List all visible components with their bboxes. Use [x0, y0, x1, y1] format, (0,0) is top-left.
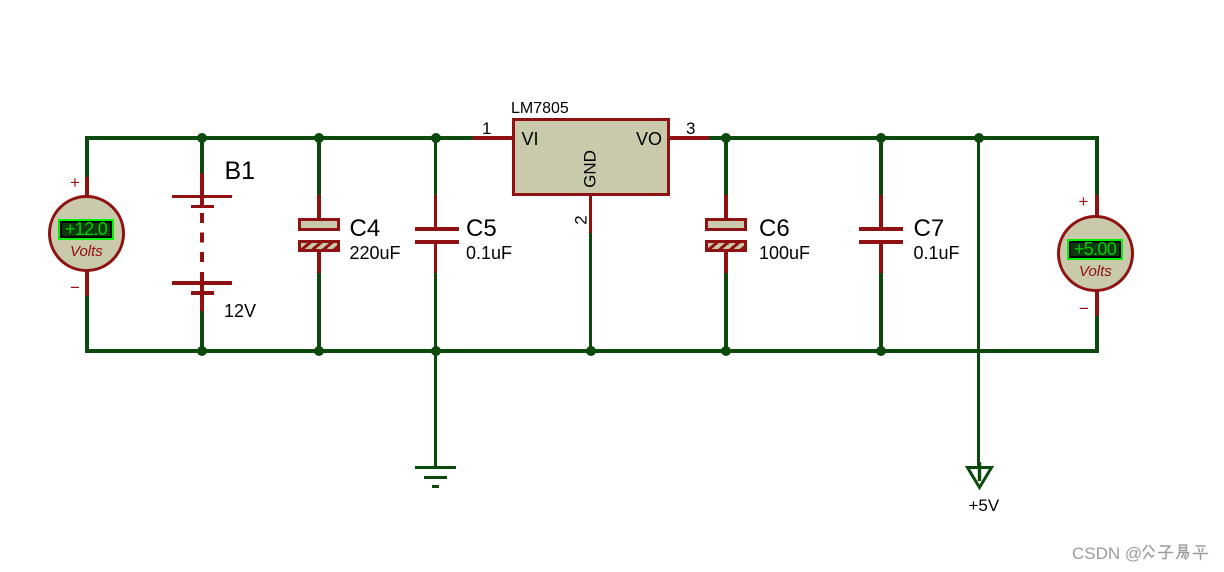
capacitor C7 wire bottom maroon [879, 243, 882, 274]
pin name VO [636, 130, 662, 148]
battery B1 wire bottom maroon [200, 284, 203, 313]
battery B1 wire top maroon [200, 173, 203, 208]
pin number 2 [573, 215, 590, 224]
junction node C6 bottom [721, 346, 732, 357]
junction node ground [431, 346, 442, 357]
battery B1 plate short 2 [191, 291, 214, 294]
pin number 1 [482, 120, 491, 137]
junction node C4 top [314, 133, 325, 144]
junction node C5 top [431, 133, 442, 144]
wire top rail right [709, 136, 1099, 139]
watermark CSDN [1072, 545, 1142, 562]
capacitor C4 wire top green [317, 136, 320, 196]
battery B1 dashed link [200, 213, 203, 282]
capacitor C6 plate top [705, 218, 747, 231]
battery B1 plate long 1 [172, 195, 232, 198]
pin name GND rotated [582, 150, 599, 188]
wire +5V vertical [977, 136, 980, 481]
junction node C6 top [721, 133, 732, 144]
voltmeter right minus [1079, 300, 1089, 317]
capacitor C6 plate bottom hatched [705, 240, 747, 252]
wire left meter vertical [85, 136, 88, 352]
junction node battery top [197, 133, 208, 144]
wire bottom rail [85, 349, 1098, 352]
capacitor C4 wire top maroon [317, 195, 320, 219]
wire left meter pin top [85, 177, 88, 197]
battery B1 plate short 1 [191, 205, 214, 208]
capacitor C4 value [350, 244, 401, 262]
pin name VI [522, 130, 539, 148]
capacitor C5 plate bottom [415, 240, 459, 244]
voltmeter left Volts label [70, 244, 103, 259]
wire pin 2 maroon [589, 196, 592, 234]
voltmeter right display [1067, 239, 1123, 260]
capacitor C7 wire bottom green [879, 273, 882, 353]
capacitor C4 plate top [298, 218, 340, 231]
power arrow +5V [963, 462, 997, 492]
voltmeter right plus [1079, 193, 1089, 210]
wire left meter pin bottom [85, 272, 88, 296]
capacitor C6 wire bottom green [724, 273, 727, 353]
battery B1 plate long 2 [172, 281, 232, 284]
wire top rail left [85, 136, 473, 139]
wire pin 2 green [589, 233, 592, 353]
capacitor C7 value [914, 244, 960, 262]
capacitor C6 wire bottom maroon [724, 251, 727, 274]
junction node pin2 bottom [586, 346, 597, 357]
capacitor C7 ref label [914, 217, 945, 241]
capacitor C5 wire top maroon [434, 195, 437, 228]
power label +5V [969, 497, 1000, 514]
capacitor C5 wire bottom green [434, 273, 437, 353]
capacitor C7 wire top maroon [879, 195, 882, 228]
battery B1 value 12V [224, 302, 256, 320]
voltmeter right Volts label [1079, 264, 1112, 279]
wire right meter pin top [1095, 195, 1098, 216]
junction node +5V top [974, 133, 985, 144]
junction node C4 bottom [314, 346, 325, 357]
regulator label LM7805 [511, 101, 569, 117]
battery B1 wire top green [200, 136, 203, 174]
regulator U1 LM7805 body [512, 118, 670, 196]
capacitor C5 value [466, 244, 512, 262]
pin number 3 [686, 120, 695, 137]
capacitor C4 ref label [350, 217, 381, 241]
voltmeter left display [58, 219, 114, 240]
voltmeter right body [1057, 215, 1134, 292]
capacitor C6 wire top green [724, 136, 727, 196]
capacitor C7 wire top green [879, 136, 882, 196]
voltmeter left body [48, 195, 125, 272]
wire pin 1 stub [473, 136, 512, 139]
watermark chinese glyphs [1140, 543, 1210, 562]
ground wire vertical [434, 349, 437, 467]
voltmeter left minus [70, 279, 80, 296]
capacitor C4 plate bottom hatched [298, 240, 340, 252]
battery B1 wire bottom green [200, 311, 203, 353]
wire right meter vertical [1095, 136, 1098, 352]
junction node C7 top [876, 133, 887, 144]
wire right meter pin bottom [1095, 292, 1098, 316]
ground symbol [415, 466, 456, 469]
capacitor C5 wire bottom maroon [434, 243, 437, 274]
capacitor C6 ref label [759, 217, 790, 241]
junction node battery bottom [197, 346, 208, 357]
capacitor C4 wire bottom green [317, 273, 320, 353]
capacitor C5 plate top [415, 227, 459, 231]
capacitor C5 ref label [466, 217, 497, 241]
capacitor C7 plate top [859, 227, 903, 231]
capacitor C6 value [759, 244, 810, 262]
battery B1 ref label [225, 159, 256, 184]
capacitor C6 wire top maroon [724, 195, 727, 219]
wire pin 3 stub [670, 136, 709, 139]
capacitor C7 plate bottom [859, 240, 903, 244]
capacitor C5 wire top green [434, 136, 437, 196]
voltmeter left plus [70, 174, 80, 191]
capacitor C4 wire bottom maroon [317, 251, 320, 274]
junction node C7 bottom [876, 346, 887, 357]
